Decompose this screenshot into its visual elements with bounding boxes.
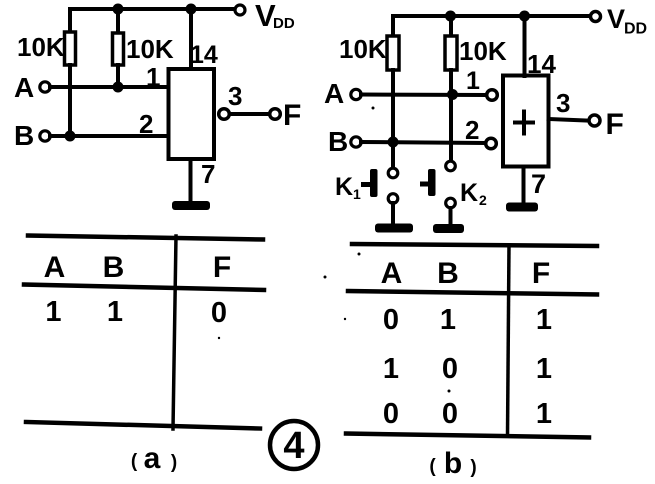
pin number 1 (a) <box>146 62 160 92</box>
wire rail to resistor R1 (a) <box>68 9 72 32</box>
terminal circle VDD (a) <box>235 5 245 15</box>
switch K2 actuator bar <box>428 169 436 196</box>
svg-text:B: B <box>437 257 459 290</box>
svg-text:0: 0 <box>383 398 399 430</box>
pin number 14 (a) <box>190 41 218 69</box>
ground symbol pin 7 (b) <box>506 203 538 212</box>
wire rail to resistor R3 (b) <box>391 16 395 36</box>
svg-text:F: F <box>213 251 231 284</box>
pin number 2 (a) <box>139 109 153 139</box>
wire VDD rail (b) <box>393 14 591 18</box>
svg-text:7: 7 <box>201 159 215 189</box>
table (b) bottom rule <box>346 434 589 438</box>
figure number circled 4 <box>270 421 318 469</box>
output terminal F circle (b) <box>589 115 600 126</box>
svg-text:1: 1 <box>353 186 361 202</box>
svg-text:1: 1 <box>440 304 456 336</box>
resistor R2 10K (a) <box>113 33 124 65</box>
switch K2 actuator stem <box>420 182 428 187</box>
caption (b) <box>429 447 476 480</box>
svg-text:A: A <box>14 72 34 103</box>
label F (b) <box>606 108 624 141</box>
label VDD (b) <box>607 4 647 38</box>
svg-text:1: 1 <box>383 353 399 385</box>
svg-text:0: 0 <box>211 297 227 329</box>
svg-text:1: 1 <box>146 62 160 92</box>
svg-text:1: 1 <box>45 296 61 328</box>
svg-text:10K: 10K <box>459 36 507 66</box>
svg-text:b: b <box>444 447 462 480</box>
wire pin 3 to F terminal (a) <box>231 112 268 116</box>
switch K1 top contact circle <box>388 168 398 178</box>
svg-text:4: 4 <box>283 425 304 467</box>
switch K1 bottom contact circle <box>388 194 398 204</box>
wire input A to pin 1 (a) <box>50 85 168 89</box>
ink speck near table (a) F header <box>324 276 327 279</box>
junction dot rail/R2 (a) <box>113 4 124 15</box>
wire input B to pin 2 (b) <box>361 142 484 143</box>
table (b) row3: B value 0 <box>442 398 458 430</box>
output terminal F circle (a) <box>270 109 281 120</box>
wire pin 7 to ground (a) <box>189 159 193 202</box>
table (b) row1: F value 1 <box>536 304 552 336</box>
pin number 1 (b) <box>466 67 480 95</box>
value label 10K of R4 (b) <box>459 36 507 66</box>
wire R2 bottom to node A (a) <box>116 65 120 87</box>
table (b) vertical divider <box>508 245 510 436</box>
pin number 14 (b) <box>527 49 556 79</box>
input terminal A (b) <box>351 89 361 99</box>
label K1 <box>335 173 361 202</box>
pin number 7 (a) <box>201 159 215 189</box>
value label 10K of R2 (a) <box>126 34 174 64</box>
table (a) top rule <box>28 236 263 240</box>
wire input A to pin 1 (b) <box>361 93 486 98</box>
table (b) row2: F value 1 <box>536 353 552 385</box>
table (a) row: A value 1 <box>45 296 61 328</box>
svg-text:F: F <box>606 108 624 141</box>
junction dot R2/A wire (a) <box>113 82 124 93</box>
table (a) row: B value 1 <box>107 296 123 328</box>
svg-text:1: 1 <box>107 296 123 328</box>
svg-text:K: K <box>460 179 478 207</box>
svg-text:10K: 10K <box>17 32 65 62</box>
ground symbol K1 <box>375 224 413 233</box>
ink speck left of table (b) row1 <box>344 318 346 320</box>
label A (b) <box>324 78 344 109</box>
table (b) header rule <box>348 291 597 295</box>
terminal circle VDD (b) <box>591 12 601 22</box>
label A (a) <box>14 72 34 103</box>
table (b) row2: A value 1 <box>383 353 399 385</box>
wire R1 bottom to node B (a) <box>68 65 72 136</box>
wire pin 14 (b) <box>523 16 527 76</box>
wire R4 bottom through node A to switch K2 (b) <box>449 70 453 160</box>
junction dot R4/A wire (b) <box>447 89 458 100</box>
table (b) row1: B value 1 <box>440 304 456 336</box>
svg-text:0: 0 <box>383 304 399 336</box>
pin number 2 (b) <box>465 115 479 145</box>
junction dot rail/pin14 (b) <box>519 11 530 22</box>
table (a) vertical divider <box>173 236 176 429</box>
caption (a) <box>131 442 177 475</box>
input terminal B (a) <box>40 131 50 141</box>
op-amp/gate IC U2 (b) <box>503 76 549 167</box>
table (b) row3: A value 0 <box>383 398 399 430</box>
value label 10K of R3 (b) <box>339 34 387 64</box>
svg-text:): ) <box>470 457 476 478</box>
svg-text:2: 2 <box>139 109 153 139</box>
svg-text:F: F <box>283 99 301 132</box>
table (b) header A <box>381 257 403 290</box>
ink speck below table (a) value 0 <box>218 337 220 339</box>
ink speck table (b) top left <box>358 253 361 256</box>
svg-text:10K: 10K <box>339 34 387 64</box>
plus symbol inside U2 <box>515 112 533 134</box>
svg-text:K: K <box>335 173 353 201</box>
table (b) top rule <box>352 244 597 246</box>
label B (b) <box>328 126 348 157</box>
pin number 7 (b) <box>531 169 546 199</box>
svg-text:A: A <box>44 251 66 284</box>
svg-text:A: A <box>324 78 344 109</box>
table (b) row3: F value 1 <box>536 398 552 430</box>
value label 10K of R1 (a) <box>17 32 65 62</box>
wire pin 7 to ground (b) <box>522 167 526 203</box>
wire K1 to ground <box>391 203 395 224</box>
svg-text:(: ( <box>131 451 138 472</box>
pin number 3 (b) <box>556 88 570 118</box>
table (a) header rule <box>24 285 264 291</box>
wire R3 bottom through node B to switch K1 (b) <box>391 70 395 167</box>
wire VDD rail (a) <box>70 7 235 11</box>
table (b) header B <box>437 257 459 290</box>
junction dot rail/pin14 (a) <box>186 4 197 15</box>
pin 3 output circle (a) <box>219 109 230 120</box>
svg-text:2: 2 <box>465 115 479 145</box>
svg-text:(: ( <box>429 456 436 477</box>
junction dot R1/B wire (a) <box>65 131 76 142</box>
table (a) bottom rule <box>26 422 260 429</box>
table (a) header A <box>44 251 66 284</box>
wire input B to pin 2 (a) <box>50 134 168 138</box>
svg-text:14: 14 <box>190 41 218 69</box>
switch K2 top contact circle <box>446 161 456 171</box>
wire rail to resistor R2 (a) <box>116 9 120 33</box>
table (a) header F <box>213 251 231 284</box>
svg-text:1: 1 <box>536 304 552 336</box>
table (a) header B <box>103 251 125 284</box>
svg-text:7: 7 <box>531 169 546 199</box>
svg-text:B: B <box>103 251 125 284</box>
ground symbol (a) <box>172 201 210 210</box>
wire K2 to ground <box>449 208 453 225</box>
table (b) row2: B value 0 <box>442 353 458 385</box>
switch K2 bottom contact circle <box>446 198 456 208</box>
table (b) row1: A value 0 <box>383 304 399 336</box>
junction dot rail/R4 (b) <box>445 11 456 22</box>
svg-text:0: 0 <box>442 398 458 430</box>
svg-text:F: F <box>532 257 550 290</box>
svg-text:DD: DD <box>273 15 295 32</box>
svg-text:1: 1 <box>536 398 552 430</box>
ink speck table (b) between rows <box>448 390 451 393</box>
table (a) row: F value 0 <box>211 297 227 329</box>
ink speck circuit (b) near A wire <box>372 107 375 110</box>
wire pin 3 to F terminal (b) <box>549 119 588 121</box>
svg-text:1: 1 <box>466 67 480 95</box>
pin 2 circle (b) <box>486 138 497 149</box>
switch K1 actuator bar <box>370 169 378 197</box>
pin 1 circle (b) <box>487 90 498 101</box>
switch K1 actuator stem <box>361 182 370 187</box>
svg-text:DD: DD <box>624 21 647 38</box>
table (b) header F <box>532 257 550 290</box>
svg-text:10K: 10K <box>126 34 174 64</box>
svg-text:14: 14 <box>527 49 556 79</box>
label F (a) <box>283 99 301 132</box>
wire pin 14 (a) <box>189 9 193 69</box>
svg-text:3: 3 <box>556 88 570 118</box>
svg-text:V: V <box>607 4 625 34</box>
pin number 3 (a) <box>228 81 242 111</box>
svg-text:B: B <box>328 126 348 157</box>
svg-text:3: 3 <box>228 81 242 111</box>
op-amp/gate IC U1 (a) <box>169 69 215 159</box>
resistor R3 10K (b) <box>387 36 399 70</box>
resistor R4 10K (b) <box>445 36 457 70</box>
resistor R1 10K (a) <box>65 32 76 65</box>
svg-text:): ) <box>171 452 177 473</box>
ground symbol K2 <box>433 224 464 233</box>
svg-text:0: 0 <box>442 353 458 385</box>
input terminal B (b) <box>351 137 361 147</box>
svg-text:A: A <box>381 257 403 290</box>
svg-text:1: 1 <box>536 353 552 385</box>
label B (a) <box>14 120 34 151</box>
label VDD (a) <box>255 0 295 33</box>
junction dot R3/B wire (b) <box>388 137 399 148</box>
label K2 <box>460 179 487 208</box>
input terminal A (a) <box>40 82 50 92</box>
svg-text:a: a <box>144 442 161 475</box>
wire rail to resistor R4 (b) <box>449 16 453 36</box>
svg-text:B: B <box>14 120 34 151</box>
svg-text:2: 2 <box>479 192 487 208</box>
